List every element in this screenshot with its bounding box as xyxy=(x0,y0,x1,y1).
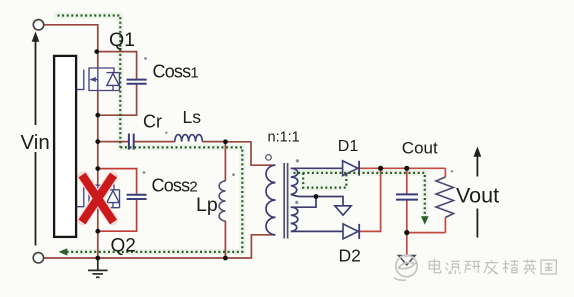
svg-text:Q2: Q2 xyxy=(111,236,136,257)
svg-text:Cr: Cr xyxy=(143,112,162,132)
svg-text:Q1: Q1 xyxy=(109,29,135,51)
svg-text:Coss1: Coss1 xyxy=(153,62,199,82)
svg-text:Cout: Cout xyxy=(402,139,438,158)
svg-text:Lp: Lp xyxy=(196,194,218,216)
svg-text:Vin: Vin xyxy=(21,131,50,154)
svg-text:Vout: Vout xyxy=(456,184,499,208)
svg-text:D1: D1 xyxy=(338,138,359,155)
svg-text:Coss2: Coss2 xyxy=(152,175,198,195)
svg-text:n:1:1: n:1:1 xyxy=(268,130,300,146)
svg-text:D2: D2 xyxy=(339,246,361,266)
svg-text:Ls: Ls xyxy=(183,107,202,127)
